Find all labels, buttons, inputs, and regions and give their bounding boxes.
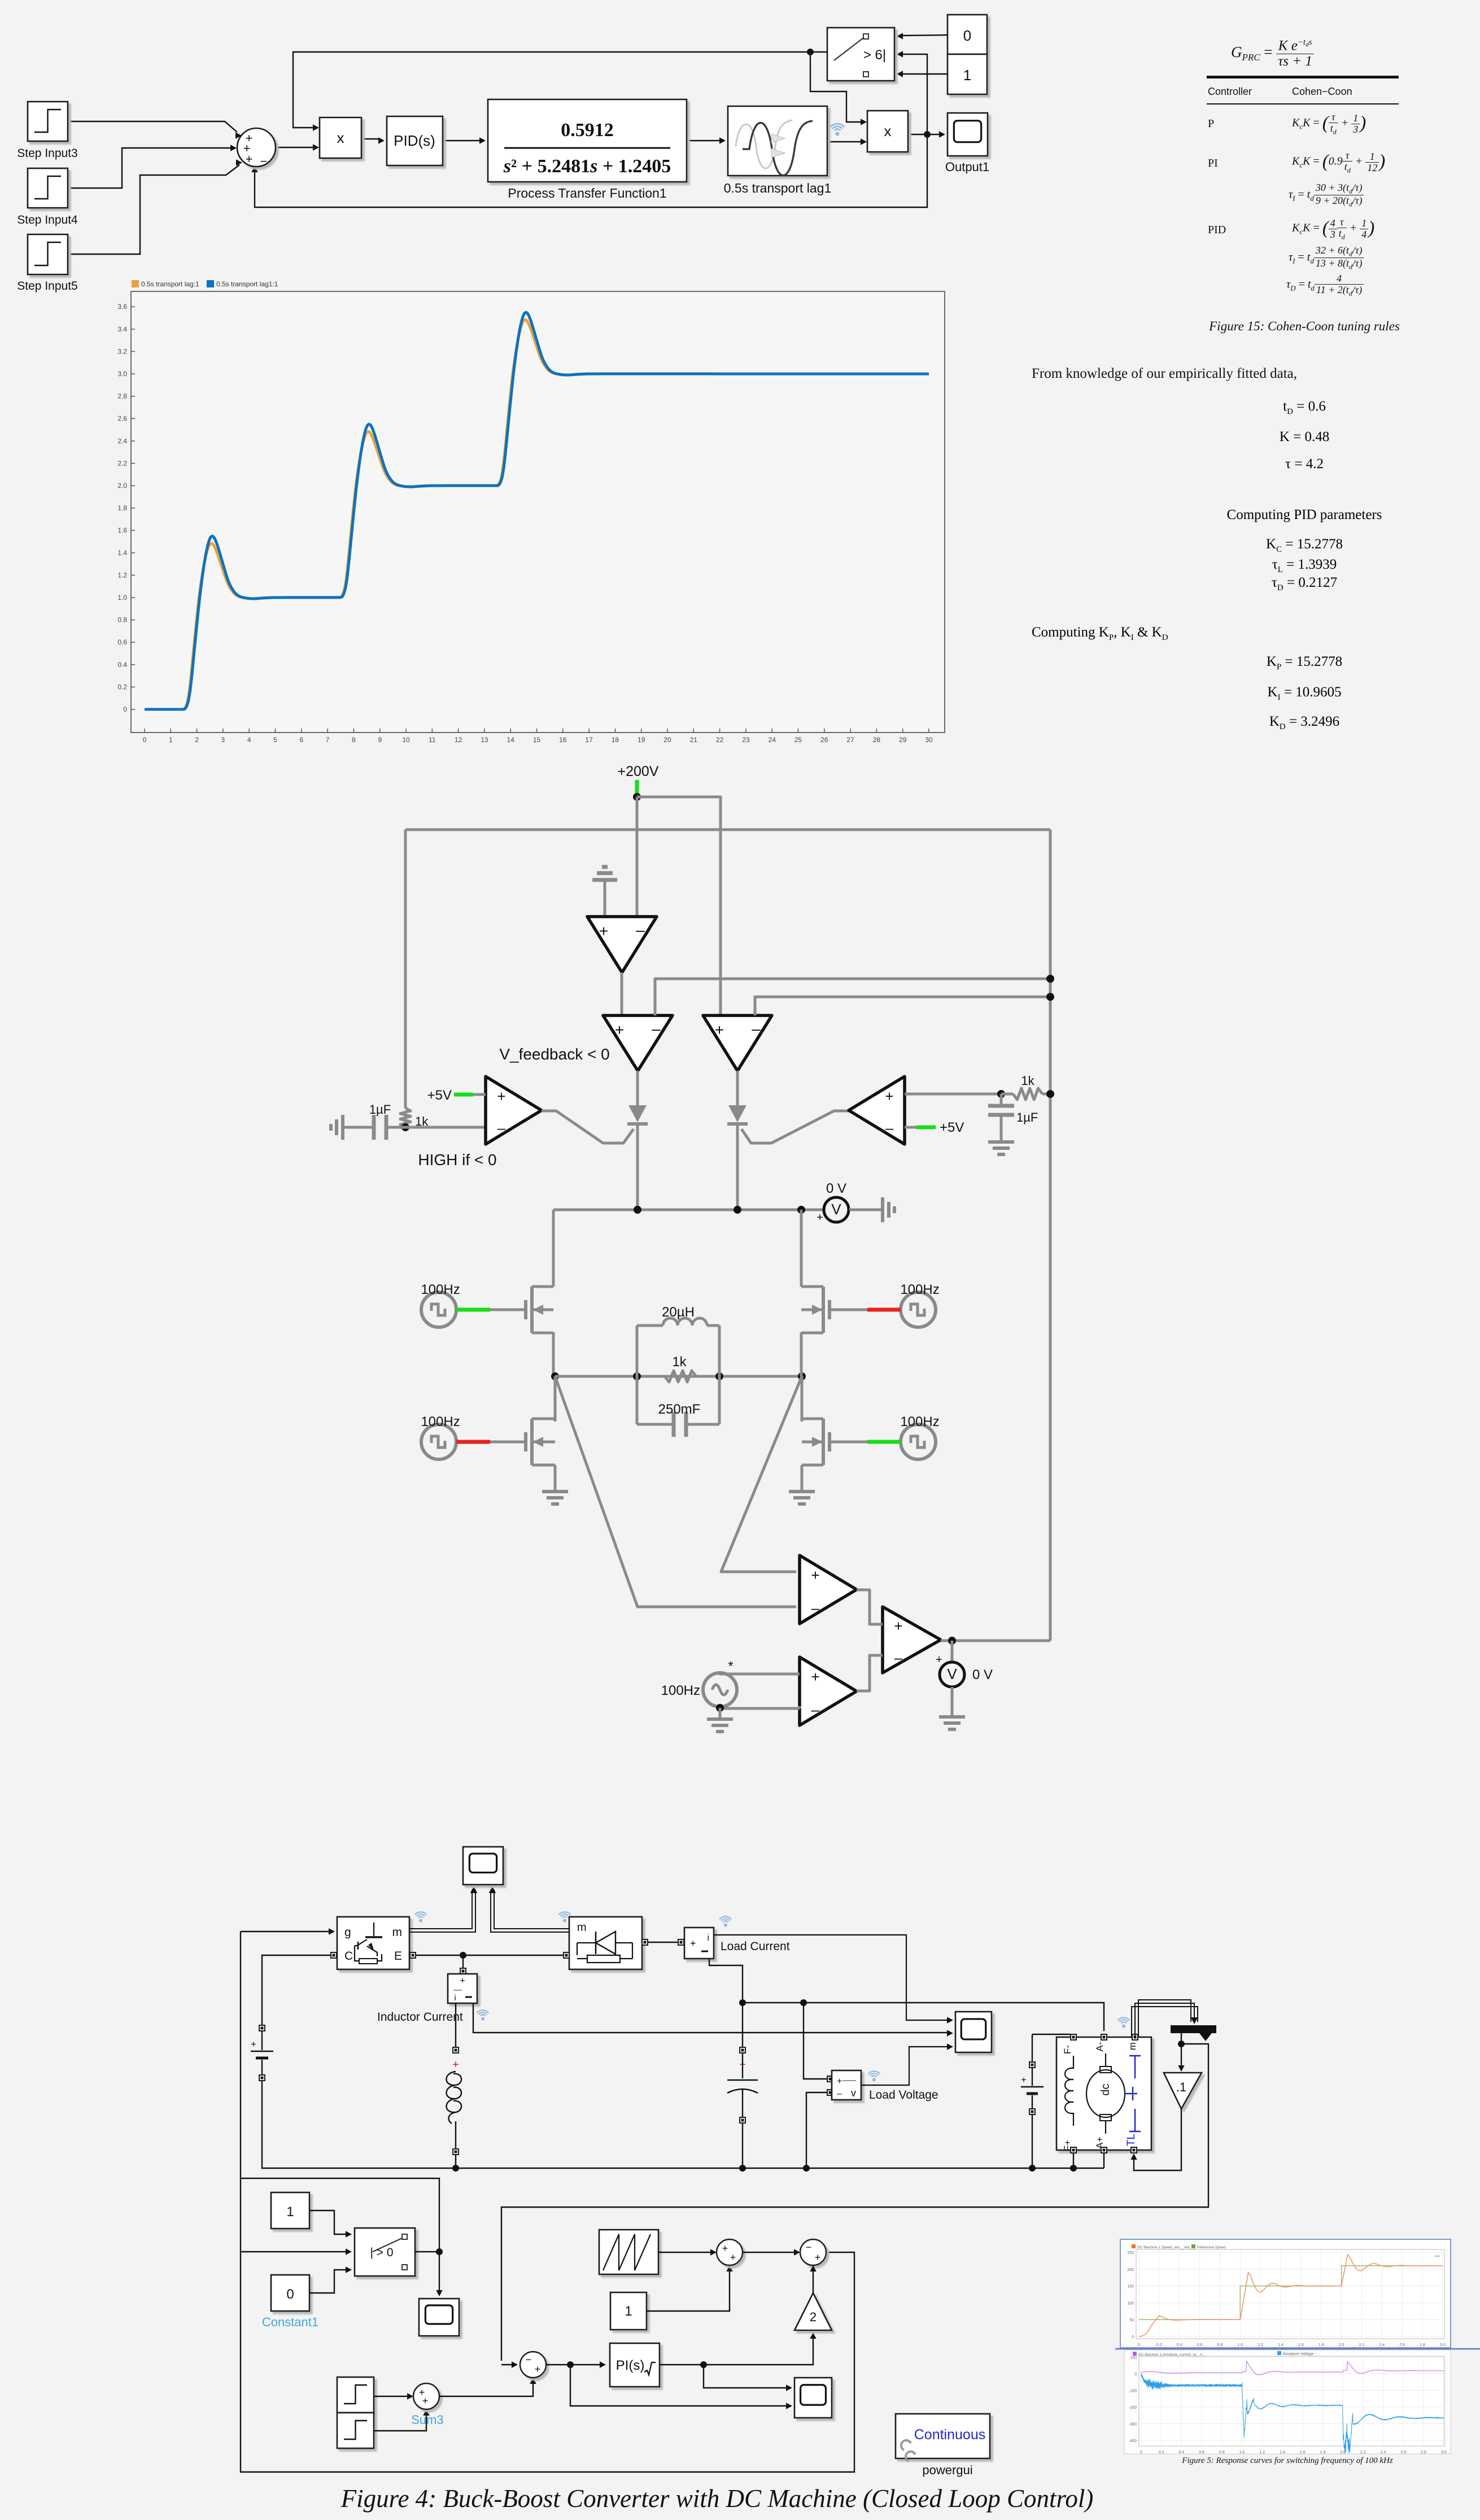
svg-text:Load Voltage: Load Voltage [869, 2089, 938, 2102]
svg-text:1.8: 1.8 [1320, 2451, 1326, 2454]
svg-text:100Hz: 100Hz [900, 1414, 939, 1429]
gain 2 triangle [794, 2293, 832, 2330]
wire: Switch output branch to Product x2 top input [810, 52, 863, 122]
wire +5V green to U4 plus [454, 1093, 486, 1097]
wire constant 1 to switch [309, 2211, 352, 2238]
svg-text:3.6: 3.6 [117, 303, 127, 311]
svg-text:+: + [811, 1668, 819, 1685]
label V_feedback < 0 [499, 1045, 609, 1063]
svg-text:.1: .1 [1176, 2080, 1186, 2094]
wire PI branch to scope3 input1 [704, 2365, 792, 2391]
op-amp U1 top comparator [587, 917, 657, 973]
block: Product x2 [867, 111, 908, 152]
svg-text:4: 4 [247, 736, 251, 744]
wire VM1 to ground [849, 1209, 881, 1211]
wire: transport lag to x2 [827, 141, 863, 142]
svg-text:Reference Speed: Reference Speed [1197, 2246, 1226, 2249]
svg-text:3: 3 [221, 736, 225, 744]
sum Sum3 [411, 2383, 443, 2427]
svg-text:2.2: 2.2 [1359, 2343, 1365, 2347]
wire: PTF to transport lag [687, 140, 722, 141]
armature current purple curve [1141, 2361, 1444, 2375]
svg-text:0: 0 [1140, 2451, 1142, 2454]
svg-text:6: 6 [299, 736, 303, 744]
wire load current measurement to scope1 [714, 1935, 953, 2024]
svg-text:2.4: 2.4 [117, 437, 127, 445]
reference speed green curve [1139, 2266, 1443, 2320]
ground below C2 [988, 1142, 1014, 1154]
svg-text:V: V [831, 1201, 841, 1218]
wire switch output to gate rail [241, 2178, 443, 2296]
voltage sensor Load Voltage [827, 2070, 861, 2100]
op-amp U7 reference comparator [800, 1657, 857, 1725]
svg-text:1.4: 1.4 [1280, 2451, 1285, 2454]
svg-text:A-: A- [1094, 2042, 1105, 2052]
capacitor element CL [727, 2003, 758, 2168]
junction R2 on right rail [1046, 1090, 1054, 1098]
voltmeter VM1 0V [817, 1181, 849, 1224]
source V4 100Hz bottom-right [900, 1414, 939, 1459]
wire: x2 to Output1 and feedback branch [908, 134, 941, 135]
wire: Constant 0 to Switch [901, 35, 948, 36]
wire: PID to Process Transfer Function [443, 140, 482, 141]
svg-text:3.0: 3.0 [117, 370, 127, 378]
svg-text:100Hz: 100Hz [661, 1683, 700, 1698]
svg-text:+: + [422, 2395, 429, 2406]
svg-text:DC Machine 1 Speed_wm__rad_s_: DC Machine 1 Speed_wm__rad_s_ [1137, 2246, 1195, 2249]
armature voltage blue curve [1141, 2373, 1444, 2453]
wire diagonal right mid node to U6 plus [721, 1376, 802, 1572]
label +5V right [940, 1120, 964, 1135]
svg-text:10: 10 [402, 736, 410, 744]
svg-text:1: 1 [169, 736, 173, 744]
ground below M2 [542, 1492, 568, 1504]
junction tank right [715, 1372, 723, 1380]
wire: Step Input4 to Sum [68, 148, 233, 188]
wire M4 source to ground [801, 1465, 804, 1492]
block: Switch greater than 6 [827, 28, 894, 81]
op-amp U5 right comparator [849, 1076, 905, 1144]
sum sumC [800, 2239, 826, 2265]
svg-text:8: 8 [352, 736, 356, 744]
scope Scope2 [419, 2299, 459, 2336]
wire M3 source to right mid node [800, 1332, 803, 1376]
powergui block [896, 2414, 990, 2477]
svg-text:+: + [535, 2364, 541, 2375]
resistor R3 1k tank [637, 1354, 696, 1382]
svg-text:Step Input3: Step Input3 [17, 147, 77, 160]
ground chassis for U1 plus [592, 867, 617, 917]
wire U7 output to U8 minus [857, 1655, 883, 1691]
junction SCR1 bottom [634, 1206, 641, 1214]
wire: Switch output to Product x1 top input [293, 52, 827, 128]
transistor M2 bottom-left MOSFET [526, 1376, 555, 1465]
junction tank left [633, 1372, 641, 1380]
ground below M4 [789, 1492, 815, 1504]
resistor R1 1k left [400, 1108, 429, 1128]
svg-text:1.2: 1.2 [117, 571, 127, 579]
svg-text:x: x [884, 123, 892, 139]
wire: Step Input5 to Sum [68, 165, 239, 254]
svg-text:100Hz: 100Hz [421, 1414, 460, 1429]
svg-text:1.2: 1.2 [1259, 2451, 1265, 2454]
wire: feedback from Output junction to Sum [255, 134, 927, 207]
svg-text:0 V: 0 V [826, 1181, 846, 1196]
wire switch output [415, 2251, 439, 2252]
battery B1 [251, 2025, 273, 2081]
wire tank right vertical [718, 1326, 721, 1424]
wire U1 output to U2 plus [621, 973, 623, 1015]
svg-text:0.4: 0.4 [117, 661, 127, 669]
block: Sum [237, 128, 276, 168]
svg-text:s² + 5.2481s + 1.2405: s² + 5.2481s + 1.2405 [503, 156, 671, 177]
wire gain2 to sumC [810, 2265, 816, 2293]
wire PI out [660, 2332, 817, 2368]
block: Step Input3 [17, 102, 77, 160]
op-amp U2 mid-left comparator [603, 1015, 673, 1071]
voltmeter VM2 0V [936, 1641, 993, 1687]
wire node to U4 minus [405, 1126, 484, 1129]
transistor M1 top-left MOSFET [526, 1287, 553, 1333]
op-amp U6 sense comparator [800, 1555, 857, 1624]
wire diode anode to Load Current sensor [648, 1942, 678, 1943]
svg-text:9: 9 [378, 736, 382, 744]
svg-text:100: 100 [1130, 2356, 1137, 2360]
wire: Step Input3 to Sum [68, 121, 237, 132]
wire F+ A+ to rail [1070, 2153, 1104, 2172]
capacitor C3 250mF tank [637, 1402, 719, 1437]
svg-text:+: + [452, 2059, 459, 2071]
svg-text:0.4: 0.4 [1179, 2451, 1185, 2454]
svg-text:−: − [260, 154, 268, 168]
sum sumB [717, 2239, 743, 2265]
wire left rail down to resistor R1 [404, 830, 407, 1108]
svg-text:19: 19 [638, 736, 645, 744]
svg-text:Step Input5: Step Input5 [17, 280, 77, 293]
svg-text:+: + [715, 1021, 724, 1039]
transistor M3 top-right MOSFET [801, 1287, 830, 1333]
wire into switch control input [241, 2248, 352, 2255]
svg-text:–: – [811, 1701, 820, 1718]
svg-text:1k: 1k [672, 1354, 687, 1370]
ground below VM2 [939, 1717, 965, 1729]
svg-text:1: 1 [625, 2304, 632, 2319]
wire steps to Sum3 [374, 2393, 413, 2399]
svg-text:7: 7 [326, 736, 330, 744]
svg-text:0: 0 [123, 705, 127, 713]
svg-text:V_feedback < 0: V_feedback < 0 [499, 1045, 609, 1063]
svg-text:+: + [615, 1021, 624, 1039]
wire feedback top rail [405, 829, 1050, 831]
machine speed orange curve [1139, 2255, 1443, 2336]
svg-text:0: 0 [286, 2287, 294, 2302]
svg-text:2.4: 2.4 [1379, 2343, 1385, 2347]
svg-text:100Hz: 100Hz [900, 1282, 939, 1297]
wire V5 plus to U7 plus [720, 1673, 800, 1674]
svg-text:–: – [894, 1649, 903, 1666]
svg-text:0.6: 0.6 [1197, 2343, 1203, 2347]
block: PID(s) [387, 116, 443, 165]
wire: Constant 1 to Switch [901, 73, 948, 75]
svg-text:+: + [837, 2077, 842, 2086]
svg-text:0: 0 [1132, 2335, 1134, 2339]
svg-text:18: 18 [612, 736, 619, 744]
svg-text:E: E [394, 1950, 402, 1963]
svg-text:m: m [392, 1926, 403, 1939]
svg-text:1: 1 [286, 2204, 294, 2220]
wire inductor current measurement to scope [473, 2003, 953, 2037]
wire M1 source to mid node [552, 1332, 555, 1376]
svg-text:m: m [577, 1921, 587, 1934]
svg-text:3.0: 3.0 [1441, 2451, 1447, 2454]
gain 0.1 triangle [1164, 2073, 1202, 2109]
step source lower [337, 2413, 374, 2448]
svg-text:2.2: 2.2 [1360, 2451, 1366, 2454]
svg-text:1µF: 1µF [369, 1102, 391, 1117]
svg-text:F-: F- [1062, 2045, 1073, 2054]
svg-text:g: g [344, 1926, 351, 1939]
svg-text:-300: -300 [1129, 2423, 1137, 2427]
svg-text:*: * [728, 1659, 733, 1674]
svg-text:100Hz: 100Hz [421, 1282, 460, 1297]
block: Product x1 [320, 117, 361, 158]
svg-text:1.6: 1.6 [1300, 2451, 1306, 2454]
wire +200V green stub [635, 780, 639, 795]
svg-text:0.5s transport lag1: 0.5s transport lag1 [724, 181, 832, 195]
svg-text:0.4: 0.4 [1177, 2343, 1182, 2347]
svg-text:–: – [752, 1020, 761, 1037]
wire sawtooth to sumB [658, 2249, 717, 2255]
wire: Sum to Product x1 [276, 147, 315, 148]
svg-text:0: 0 [963, 27, 971, 44]
svg-text:> 6|: > 6| [863, 47, 886, 63]
svg-text:3.0: 3.0 [1440, 2343, 1446, 2347]
svg-text:+: + [815, 2252, 821, 2263]
block: Step Input5 [17, 234, 77, 293]
svg-text:0: 0 [143, 736, 147, 744]
svg-text:Process Transfer Function1: Process Transfer Function1 [508, 186, 666, 200]
svg-text:i: i [454, 1993, 456, 2003]
wire sensor to inductor element [455, 2003, 456, 2047]
svg-text:+: + [599, 922, 608, 940]
svg-text:-100: -100 [1129, 2390, 1137, 2393]
svg-text:–: – [837, 2089, 842, 2099]
svg-text:50: 50 [1129, 2318, 1134, 2322]
wire Load Voltage to scope1 input3 [861, 2043, 953, 2085]
blue curve 0.5s transport lag1:1 [145, 312, 929, 709]
svg-text:Continuous: Continuous [914, 2427, 985, 2443]
svg-text:–: – [497, 1119, 506, 1136]
svg-text:1.4: 1.4 [117, 549, 127, 557]
wire load node to Load Voltage plus [804, 2003, 827, 2079]
svg-text:2.0: 2.0 [1339, 2343, 1344, 2347]
svg-text:+5V: +5V [427, 1088, 452, 1103]
thyristor SCR2 [727, 1071, 748, 1210]
svg-text:C: C [344, 1950, 353, 1963]
svg-text:2.6: 2.6 [1399, 2343, 1405, 2347]
svg-text:0.5912: 0.5912 [561, 120, 614, 141]
svg-text:1.2: 1.2 [1258, 2343, 1263, 2347]
svg-text:−: − [806, 2242, 812, 2253]
wire battery minus to bottom rail [262, 2081, 1104, 2168]
constant 0 block [262, 2275, 318, 2329]
wire selector to gain and speed feedback [501, 2033, 1208, 2365]
wire U8 output to right rail [941, 1640, 1050, 1642]
diode block [563, 1917, 648, 1969]
svg-text:2.4: 2.4 [1381, 2451, 1386, 2454]
svg-text:+: + [894, 1617, 902, 1634]
wifi badge at transport lag output [835, 129, 840, 130]
wire V1 green to M1 gate [456, 1308, 526, 1312]
svg-text:2.8: 2.8 [1421, 2451, 1426, 2454]
junction feedback line B on right rail [1046, 993, 1054, 1001]
svg-text:+: + [936, 1654, 942, 1666]
wire U2 minus to feedback line A [655, 979, 1050, 1015]
wire diode m to scope (double line) [489, 1886, 569, 1932]
block: Process Transfer Function1 [488, 99, 687, 200]
ground below V5 [707, 1719, 733, 1732]
wire left H-bridge top rail [552, 1210, 555, 1287]
current sensor Inductor Current [448, 1968, 477, 2003]
wire constant 1b to sumB [647, 2265, 733, 2311]
junction inductor to rail [452, 2165, 459, 2172]
svg-text:0.5s transport lag:1: 0.5s transport lag:1 [141, 280, 199, 288]
svg-text:1: 1 [963, 67, 971, 84]
wire emitter node down to inductor sensor [462, 1955, 464, 1968]
svg-text:–: – [636, 921, 645, 939]
svg-text:100: 100 [1127, 2301, 1134, 2305]
svg-text:2.6: 2.6 [117, 415, 127, 422]
svg-text:-200: -200 [1129, 2406, 1137, 2410]
svg-text:5: 5 [273, 736, 277, 744]
svg-text:•••: ••• [1435, 2253, 1440, 2259]
wire M2 source to ground [554, 1465, 557, 1492]
wire U4 output to SCR1 gate [542, 1111, 634, 1143]
svg-text:+: + [811, 1567, 819, 1584]
IGBT block [330, 1917, 416, 1969]
svg-text:–: – [652, 1020, 661, 1037]
svg-text:26: 26 [820, 736, 828, 744]
svg-text:0.8: 0.8 [1217, 2343, 1223, 2347]
wire: x1 to PID [361, 138, 381, 139]
svg-text:m: m [1127, 2042, 1138, 2050]
wire IGBT m to scope (double line) [409, 1886, 477, 1932]
source V1 100Hz top-left [421, 1282, 460, 1327]
svg-text:2: 2 [810, 2310, 817, 2324]
svg-text:+: + [730, 2252, 736, 2263]
svg-text:250: 250 [1127, 2251, 1134, 2255]
wire VM2 to ground [951, 1687, 954, 1717]
wire sum branch to scope3 input2 [570, 2365, 792, 2409]
wire right H-bridge rail top [800, 1210, 803, 1287]
svg-text:24: 24 [769, 736, 776, 744]
svg-text:3.4: 3.4 [117, 325, 127, 333]
junction capacitor to rail [739, 2165, 746, 2172]
sum speed error [520, 2352, 546, 2378]
source V3 100Hz top-right [900, 1282, 939, 1327]
svg-text:0.8: 0.8 [117, 616, 127, 624]
svg-text:1.0: 1.0 [117, 594, 127, 601]
current sensor Load Current [678, 1928, 714, 1959]
wire right rail [1049, 830, 1052, 1641]
wire V3 red to M3 gate [830, 1309, 901, 1311]
svg-text:1µF: 1µF [1016, 1110, 1038, 1124]
wire IGBT emitter node [416, 1952, 565, 1959]
junction feedback line A on right rail [1046, 975, 1054, 983]
resistor R2 1k right [1001, 1074, 1050, 1100]
block: Constant 0 [948, 15, 987, 54]
thyristor SCR1 [627, 1071, 648, 1210]
switch greater-than-0 block [355, 2228, 415, 2276]
wire V5 to ground [719, 1708, 722, 1719]
wire V4 green to M4 gate [830, 1441, 901, 1444]
wire gain to TL [1130, 2109, 1181, 2170]
wire load current minus down to load node [709, 1959, 743, 2003]
wire speed feedback arrow [501, 2361, 518, 2368]
svg-text:1.6: 1.6 [1298, 2343, 1304, 2347]
ground left of C1 [331, 1115, 343, 1140]
wire load node to A- [743, 1999, 1104, 2031]
svg-text:3.2: 3.2 [117, 347, 127, 355]
svg-text:1.0: 1.0 [1239, 2451, 1245, 2454]
svg-text:1.6: 1.6 [117, 526, 127, 534]
op-amp U3 mid-right comparator [703, 1015, 772, 1071]
svg-text:12: 12 [455, 736, 462, 744]
svg-text:1.8: 1.8 [1319, 2343, 1324, 2347]
junction +200V node [633, 793, 641, 801]
block: Constant 1 [948, 54, 987, 94]
scope ScopeTop [463, 1847, 503, 1885]
transistor M4 bottom-right MOSFET [802, 1376, 830, 1465]
svg-text:0.2: 0.2 [1159, 2451, 1164, 2454]
wire U5 plus input to node [905, 1093, 1001, 1096]
scope Scope1 [955, 2012, 992, 2052]
svg-text:V: V [947, 1666, 957, 1682]
inductor element L [447, 2047, 462, 2168]
svg-text:Sum3: Sum3 [411, 2413, 443, 2427]
svg-text:0: 0 [1138, 2343, 1140, 2347]
inductor L1 20uH [637, 1305, 719, 1326]
svg-text:0: 0 [1134, 2373, 1137, 2377]
battery B2 field excitation [1021, 2034, 1070, 2172]
source V2 100Hz bottom-left [421, 1414, 460, 1459]
svg-text:–: – [885, 1119, 894, 1136]
bus selector bar [1171, 2025, 1216, 2041]
svg-text:2.6: 2.6 [1400, 2451, 1406, 2454]
svg-text:+: + [460, 1976, 465, 1986]
block: Output1 scope [945, 113, 989, 174]
svg-text:22: 22 [716, 736, 724, 744]
block: 0.5s transport lag1 [724, 106, 832, 195]
wire mid node row across tank [555, 1375, 802, 1378]
wire SCR output node row [553, 1209, 823, 1211]
svg-text:-400: -400 [1129, 2439, 1137, 2443]
svg-text:+: + [251, 2039, 256, 2050]
wire gate drive loop (big rectangle) [241, 1932, 854, 2472]
junction node row to right H-bridge [797, 1206, 805, 1214]
svg-text:28: 28 [873, 736, 881, 744]
svg-text:Step Input4: Step Input4 [17, 213, 78, 226]
source V5 sine 100Hz [661, 1659, 737, 1707]
wire Sum3 to speed sum [439, 2378, 536, 2396]
svg-text:0 V: 0 V [972, 1667, 993, 1682]
svg-text:2.8: 2.8 [1420, 2343, 1425, 2347]
svg-text:0.6: 0.6 [1199, 2451, 1204, 2454]
svg-text:0.2: 0.2 [117, 683, 127, 691]
wire m bus to selector (triple line) [1132, 2000, 1198, 2037]
svg-text:20: 20 [663, 736, 671, 744]
svg-text:150: 150 [1127, 2285, 1134, 2289]
